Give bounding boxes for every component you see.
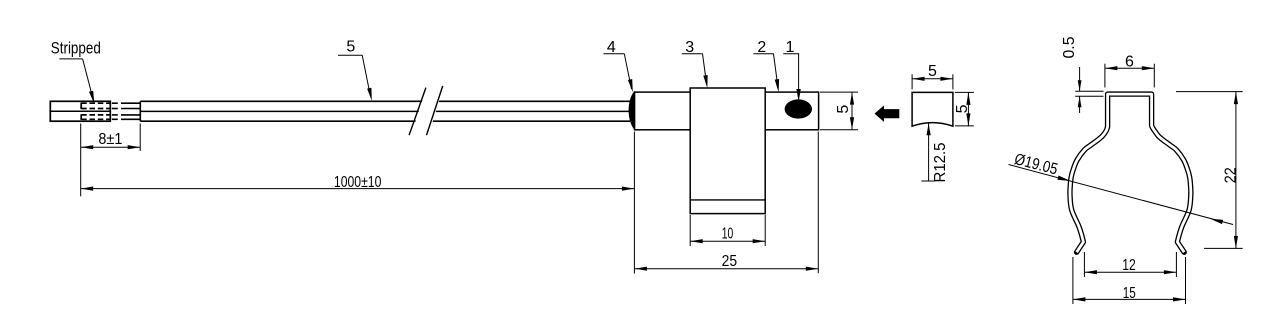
svg-text:5: 5 [835,105,852,114]
svg-text:Stripped: Stripped [51,38,101,57]
dimension 5 (square width) [912,63,953,89]
svg-text:12: 12 [1122,257,1136,274]
svg-text:10: 10 [722,226,734,243]
svg-text:25: 25 [722,253,738,270]
stripped wire 2 hidden outline (dashed) [81,114,110,120]
clip profile cross-section [1070,94,1191,252]
clip profile wall interior [1070,94,1191,252]
R12.5 leader [921,123,949,182]
label 3 callout [682,39,708,88]
svg-text:5: 5 [928,63,937,80]
dimension 0.5 (wall thickness) [1061,36,1104,113]
break line 2 [427,86,443,135]
Ø19.05 diameter leader [1009,151,1234,224]
dimension 22 (profile height) [1176,92,1243,249]
clip housing inner line [690,199,765,201]
dimension 8±1 [81,124,141,197]
bare stripped wires [112,103,140,119]
dimension 6 (tab width) [1105,54,1154,88]
extension line body left [633,132,635,274]
sensor element (item 1, black ellipse) [785,99,812,118]
dimension 5 (square height) [954,92,974,126]
label 4 callout [604,39,633,92]
sensor body bar (item 2) [635,92,819,130]
svg-text:15: 15 [1123,285,1136,302]
clip square detail [912,92,953,126]
svg-text:R12.5: R12.5 [932,142,949,182]
cable break gap [411,85,445,137]
cable (main run) [140,101,630,121]
svg-text:0.5: 0.5 [1061,36,1078,58]
svg-text:22: 22 [1222,167,1239,183]
Stripped callout [51,38,101,103]
label 2 callout [753,39,779,92]
strain-relief cap (item 4, black) [629,91,635,130]
insertion direction arrow [875,105,900,122]
cable jacket outline (left end) [50,101,110,121]
dimension 12 (gap width) [1084,252,1176,277]
svg-text:1000±10: 1000±10 [334,174,382,191]
cable jacket center line [50,110,110,112]
svg-text:6: 6 [1125,54,1134,71]
dimension 15 (feet width) [1073,257,1186,304]
label 1 callout [783,39,801,102]
stripped wire 1 hidden outline (dashed) [81,103,110,110]
svg-text:5: 5 [346,38,355,55]
clip housing (item 3) [690,88,765,214]
dimension 25 [634,132,818,274]
dimension 1000±10 [81,174,635,191]
svg-text:5: 5 [954,104,971,113]
break line 1 [409,88,426,136]
label 5 callout [338,38,372,101]
dimension 5 (body height) [820,92,858,130]
svg-text:8±1: 8±1 [98,131,122,148]
dimension 10 [690,215,765,246]
